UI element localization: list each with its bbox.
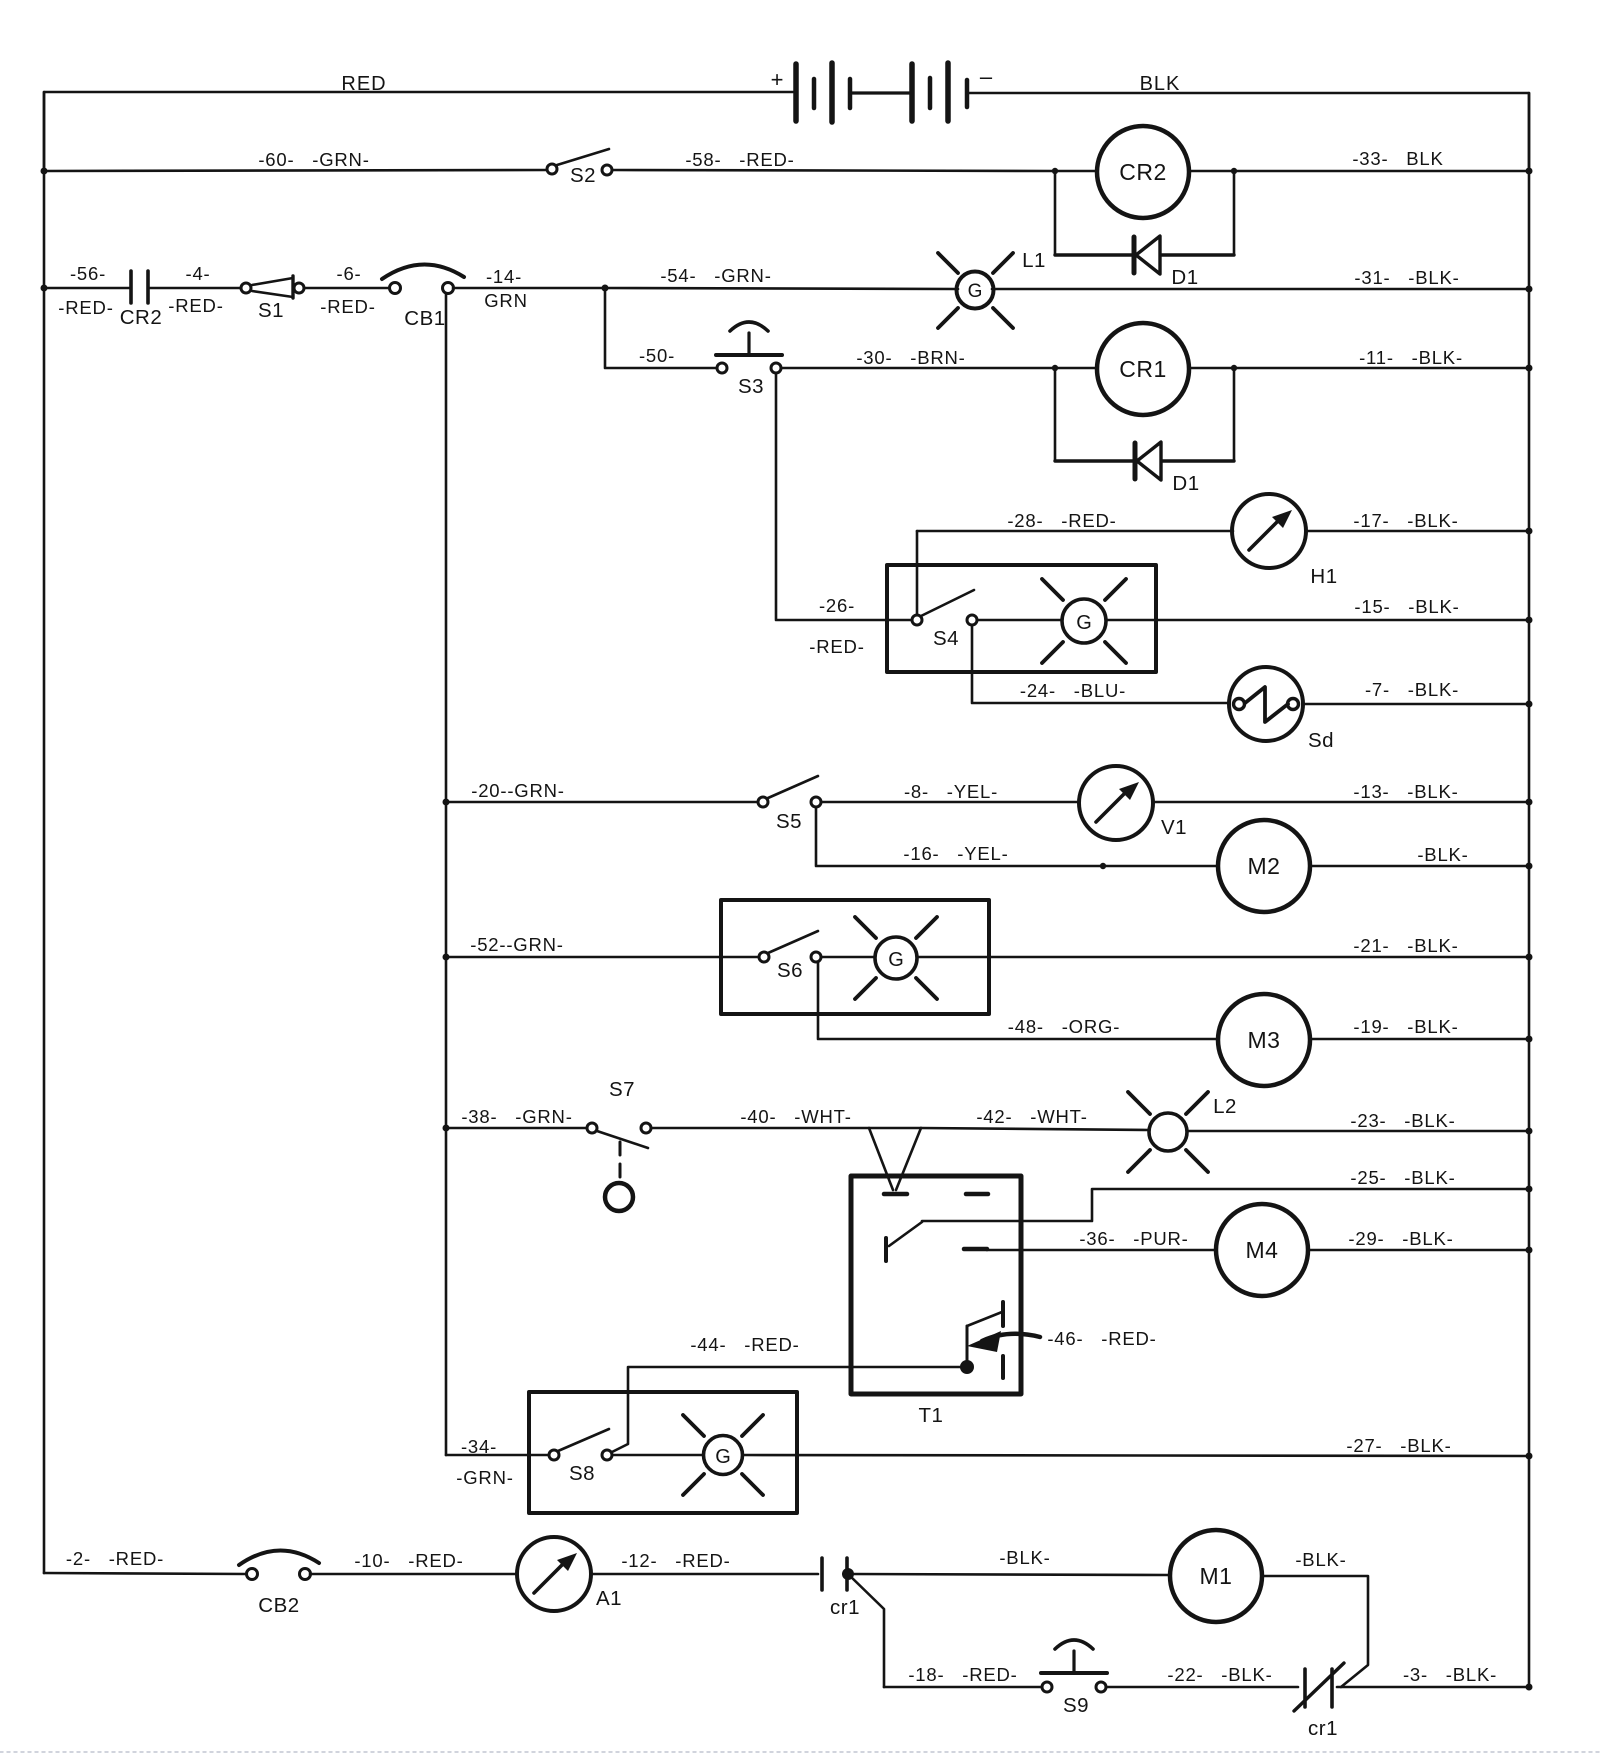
node junction CR1 right	[1231, 365, 1237, 371]
motor M2	[1218, 820, 1310, 912]
svg-text:-31- -BLK-: -31- -BLK-	[1354, 267, 1459, 288]
node junction right bus M4 rung	[1526, 1247, 1533, 1254]
switch S5	[758, 776, 821, 833]
svg-text:-BLK-: -BLK-	[999, 1547, 1050, 1568]
wire rung S5 -8- YEL segment	[821, 781, 1079, 802]
meter V1	[1079, 766, 1187, 840]
svg-text:-46- -RED-: -46- -RED-	[1047, 1328, 1156, 1349]
svg-text:RED: RED	[341, 73, 386, 95]
svg-text:-58- -RED-: -58- -RED-	[685, 149, 794, 170]
svg-text:cr1: cr1	[1308, 1717, 1338, 1740]
bottom scan edge line	[0, 1751, 1600, 1753]
svg-text:-10- -RED-: -10- -RED-	[354, 1550, 463, 1571]
wire -26- RED labels	[809, 595, 864, 657]
wire rung S8 -34- GRN segment	[446, 1436, 549, 1488]
svg-text:-30- -BRN-: -30- -BRN-	[856, 347, 965, 368]
motor M4	[1216, 1204, 1308, 1296]
svg-text:-22- -BLK-: -22- -BLK-	[1167, 1664, 1272, 1685]
wire cr1 drop to lower rung	[848, 1574, 884, 1687]
wire T1 drop leg right	[896, 1128, 921, 1190]
svg-text:-RED-: -RED-	[809, 636, 864, 657]
wire rung -36- PUR segment	[987, 1228, 1216, 1250]
svg-text:-29- -BLK-: -29- -BLK-	[1348, 1228, 1453, 1249]
node junction feeder S6 rung	[443, 954, 450, 961]
svg-text:L1: L1	[1022, 249, 1046, 272]
wire S6 branch down to M3	[818, 962, 1218, 1039]
wire bottom rung -10- RED segment	[310, 1550, 517, 1574]
wire S4 down to Sd rung	[972, 625, 1228, 703]
lamp G in S8 box	[683, 1415, 763, 1495]
svg-text:-16- -YEL-: -16- -YEL-	[903, 843, 1008, 864]
wire rung M2 BLK segment	[1310, 844, 1529, 866]
svg-text:Sd: Sd	[1308, 729, 1334, 752]
svg-text:S7: S7	[609, 1078, 635, 1101]
node junction right bus M2 rung	[1526, 863, 1533, 870]
wire rung1 -60- GRN segment	[44, 149, 547, 171]
motor M3	[1218, 994, 1310, 1086]
svg-text:S2: S2	[570, 164, 596, 187]
svg-text:-GRN-: -GRN-	[456, 1467, 513, 1488]
wire rung -23- BLK segment	[1187, 1110, 1529, 1131]
wire rung -42- WHT segment	[921, 1106, 1149, 1130]
node junction feeder S7 rung	[443, 1125, 450, 1132]
node junction right bus M3 rung	[1526, 1036, 1533, 1043]
svg-text:BLK: BLK	[1140, 73, 1181, 95]
svg-text:D1: D1	[1172, 472, 1199, 495]
node junction -16- wire	[1100, 863, 1106, 869]
wire S4 to lamp G	[977, 619, 1062, 622]
wire rung -7- BLK segment	[1303, 679, 1529, 704]
svg-text:T1: T1	[919, 1404, 944, 1427]
node junction left bus rung1	[41, 168, 48, 175]
svg-text:-27- -BLK-: -27- -BLK-	[1346, 1435, 1451, 1456]
svg-text:-13- -BLK-: -13- -BLK-	[1353, 781, 1458, 802]
svg-text:-11- -BLK-: -11- -BLK-	[1359, 347, 1463, 368]
svg-text:CB1: CB1	[404, 307, 445, 330]
node junction CR1 left	[1052, 365, 1058, 371]
diode D1 (lower)	[1135, 442, 1200, 495]
wire D1 lower loop left leg	[1054, 370, 1057, 461]
svg-text:-21- -BLK-: -21- -BLK-	[1353, 935, 1458, 956]
relay coil CR1	[1055, 323, 1234, 415]
wire branch S3 down to S4 box	[776, 373, 912, 620]
node junction right bus lower rung	[1526, 1684, 1533, 1691]
svg-text:cr1: cr1	[830, 1596, 860, 1619]
svg-text:-42- -WHT-: -42- -WHT-	[976, 1106, 1087, 1127]
meter A1	[517, 1537, 622, 1611]
heater contact inside T1	[967, 1302, 1003, 1378]
switch S6	[759, 931, 821, 982]
wire rung1 -33- BLK segment	[1234, 148, 1529, 171]
wire branch rung2 to S3	[605, 288, 717, 368]
svg-text:M4: M4	[1246, 1237, 1279, 1263]
switch S4	[912, 590, 977, 650]
svg-text:-6-: -6-	[336, 263, 361, 284]
node junction CR2 right	[1231, 168, 1237, 174]
wire S4 up to H1 rung	[916, 531, 919, 615]
svg-text:-3- -BLK-: -3- -BLK-	[1403, 1664, 1497, 1685]
svg-text:S3: S3	[738, 375, 764, 398]
node junction right bus S5 rung	[1526, 799, 1533, 806]
wire rung S8 -27- BLK segment	[743, 1435, 1529, 1456]
wire top bus left segment (RED)	[44, 73, 796, 172]
wire bottom rung -2- RED segment	[44, 1548, 247, 1574]
wire rung H1 -28- RED segment	[917, 510, 1233, 531]
wire rung S5 -20- GRN segment	[446, 780, 758, 802]
svg-text:-2- -RED-: -2- -RED-	[66, 1548, 164, 1569]
svg-text:-RED-: -RED-	[320, 296, 375, 317]
wire left bus vertical	[43, 92, 46, 1573]
svg-text:-28- -RED-: -28- -RED-	[1007, 510, 1116, 531]
lamp L1	[938, 249, 1046, 328]
svg-text:–: –	[980, 64, 993, 89]
lamp G in S6 box	[855, 917, 937, 999]
circuit breaker CB1	[382, 264, 464, 330]
wire rung M4 -29- BLK segment	[1308, 1228, 1529, 1250]
terminal T1 middle	[964, 1247, 987, 1252]
svg-text:G: G	[715, 1446, 731, 1468]
wire rung -15- BLK segment	[1106, 596, 1529, 620]
switch S2	[547, 149, 612, 187]
svg-text:S1: S1	[258, 299, 284, 322]
motor M1	[1170, 1530, 1262, 1622]
wire D1 lower loop bottom right	[1161, 459, 1234, 462]
terminal T1 top right	[966, 1192, 988, 1197]
wire rung M3 -19- BLK segment	[1310, 1016, 1529, 1039]
node junction left bus rung2	[41, 285, 48, 292]
svg-text:A1: A1	[596, 1587, 622, 1610]
wire T1 drop leg left	[869, 1128, 893, 1190]
wire rung2 -4- RED segment	[148, 263, 241, 316]
wire S5 branch down to M2	[816, 807, 1218, 866]
node junction right bus rung1	[1526, 168, 1533, 175]
enclosure box around S4	[887, 565, 1156, 672]
svg-text:-40- -WHT-: -40- -WHT-	[740, 1106, 851, 1127]
wire lower rung -3- BLK segment	[1337, 1664, 1529, 1687]
wire -44- RED from T1 to S8	[612, 1334, 967, 1452]
meter H1	[1232, 494, 1338, 588]
node junction right bus rung3	[1526, 365, 1533, 372]
wire D1 loop right leg	[1233, 173, 1236, 255]
svg-text:-19- -BLK-: -19- -BLK-	[1353, 1016, 1458, 1037]
svg-text:CR2: CR2	[1119, 159, 1167, 185]
node junction right bus H1 rung	[1526, 528, 1533, 535]
svg-text:-60- -GRN-: -60- -GRN-	[258, 149, 369, 170]
wire rung3 -30- BRN segment	[781, 347, 1055, 368]
diode D1 (upper)	[1134, 236, 1199, 289]
svg-text:-BLK-: -BLK-	[1295, 1549, 1346, 1570]
svg-text:-23- -BLK-: -23- -BLK-	[1350, 1110, 1455, 1131]
wire S8 to lamp G	[612, 1454, 703, 1457]
wire lower rung -22- BLK segment	[1106, 1664, 1298, 1687]
svg-text:L2: L2	[1213, 1095, 1237, 1118]
wire M1 right BLK segment	[1262, 1549, 1368, 1687]
svg-text:M1: M1	[1200, 1563, 1233, 1589]
circuit breaker CB2	[239, 1550, 319, 1617]
svg-text:CB2: CB2	[258, 1594, 299, 1617]
svg-text:-18- -RED-: -18- -RED-	[908, 1664, 1017, 1685]
wire rung2 -6- RED segment	[304, 263, 389, 317]
wire rung S7 -40- WHT segment	[651, 1106, 921, 1128]
svg-text:-17- -BLK-: -17- -BLK-	[1353, 510, 1458, 531]
svg-text:-52--GRN-: -52--GRN-	[470, 934, 564, 955]
wire rung2 -56- RED segment	[44, 263, 131, 318]
wire D1 lower loop right leg	[1233, 370, 1236, 461]
wire rung S5 -13- BLK segment	[1153, 781, 1529, 802]
switch S1	[241, 276, 304, 322]
svg-text:-RED-: -RED-	[168, 295, 223, 316]
svg-text:-36- -PUR-: -36- -PUR-	[1079, 1228, 1188, 1249]
wire -46- RED pointer arrow	[967, 1328, 1157, 1352]
contact CR2 (normally open)	[120, 271, 163, 329]
contact cr1 (normally open)	[822, 1558, 860, 1619]
svg-text:-7- -BLK-: -7- -BLK-	[1365, 679, 1459, 700]
svg-text:V1: V1	[1161, 816, 1187, 839]
wire rung S7 -38- GRN segment	[446, 1106, 587, 1128]
svg-text:H1: H1	[1310, 565, 1337, 588]
node junction right bus S8 rung	[1526, 1453, 1533, 1460]
wire rung2 -54- GRN segment	[605, 265, 958, 289]
wire T1 switch to -25- rung	[922, 1189, 1529, 1221]
svg-text:G: G	[888, 949, 904, 971]
svg-text:S8: S8	[569, 1462, 595, 1485]
svg-text:S9: S9	[1063, 1694, 1089, 1717]
svg-text:S4: S4	[933, 627, 959, 650]
node junction right bus Sd rung	[1526, 701, 1533, 708]
wire bottom rung BLK segment to M1	[850, 1547, 1170, 1575]
switch S8	[549, 1429, 612, 1485]
node junction rung2 branch	[602, 285, 609, 292]
battery B1	[771, 63, 993, 122]
svg-text:-54- -GRN-: -54- -GRN-	[660, 265, 771, 286]
pushbutton S9	[1041, 1640, 1107, 1717]
svg-text:-38- -GRN-: -38- -GRN-	[461, 1106, 572, 1127]
switch inside T1	[886, 1222, 922, 1261]
svg-text:CR2: CR2	[120, 306, 163, 329]
svg-text:M2: M2	[1248, 853, 1281, 879]
node junction right bus L2 rung	[1526, 1128, 1533, 1135]
wire lower rung -18- RED segment	[884, 1664, 1042, 1687]
wire right bus vertical	[1528, 93, 1531, 1687]
svg-text:GRN: GRN	[484, 290, 528, 311]
svg-text:-33- BLK: -33- BLK	[1352, 148, 1443, 169]
node junction right bus S6 rung	[1526, 954, 1533, 961]
wire bottom rung -12- RED segment	[591, 1550, 818, 1574]
svg-text:-20--GRN-: -20--GRN-	[471, 780, 565, 801]
wire top bus right segment (BLK)	[967, 73, 1529, 171]
svg-text:-44- -RED-: -44- -RED-	[690, 1334, 799, 1355]
svg-text:-4-: -4-	[185, 263, 210, 284]
svg-text:-26-: -26-	[819, 595, 855, 616]
svg-text:-48- -ORG-: -48- -ORG-	[1008, 1016, 1120, 1037]
svg-text:-25- -BLK-: -25- -BLK-	[1350, 1167, 1455, 1188]
pushbutton S3	[716, 322, 782, 398]
svg-text:-12- -RED-: -12- -RED-	[621, 1550, 730, 1571]
svg-text:+: +	[771, 67, 784, 92]
wire rung2 -14- GRN segment	[453, 266, 605, 311]
svg-text:G: G	[968, 281, 983, 302]
enclosure box around S6	[721, 900, 989, 1014]
node junction T1 bottom terminal	[960, 1360, 974, 1374]
wire rung3 -11- BLK segment	[1234, 347, 1529, 368]
svg-text:-50-: -50-	[639, 345, 675, 366]
wire D1 loop left leg	[1054, 173, 1057, 255]
wire D1 lower loop bottom left	[1055, 459, 1134, 462]
node junction right bus rung2	[1526, 286, 1533, 293]
enclosure box around S8	[529, 1392, 797, 1513]
lamp L2	[1128, 1092, 1237, 1172]
svg-text:-24- -BLU-: -24- -BLU-	[1020, 680, 1126, 701]
svg-text:G: G	[1076, 612, 1092, 634]
terminal T1 top left	[884, 1192, 907, 1197]
wire CB1 feeder vertical	[445, 293, 448, 1455]
svg-text:-8- -YEL-: -8- -YEL-	[904, 781, 998, 802]
wire rung S6 -52- GRN segment	[446, 934, 759, 957]
svg-text:S5: S5	[776, 810, 802, 833]
switch S7 (pull type)	[587, 1078, 651, 1211]
svg-text:-RED-: -RED-	[58, 297, 113, 318]
timer box T1	[851, 1176, 1021, 1427]
wire D1 loop bottom left	[1055, 253, 1133, 256]
wire rung1 -58- RED segment	[612, 149, 1055, 171]
wire rung2 -31- BLK segment	[992, 267, 1529, 289]
svg-text:-56-: -56-	[70, 263, 106, 284]
node junction CR2 left	[1052, 168, 1058, 174]
svg-text:-14-: -14-	[486, 266, 522, 287]
wire S6 to lamp G	[821, 956, 875, 959]
svg-text:M3: M3	[1248, 1027, 1281, 1053]
wire D1 loop bottom right	[1160, 253, 1234, 256]
node junction feeder S5 rung	[443, 799, 450, 806]
wire rung S6 -21- BLK segment	[917, 935, 1529, 957]
svg-text:-15- -BLK-: -15- -BLK-	[1354, 596, 1459, 617]
wire rung H1 -17- BLK segment	[1306, 510, 1529, 531]
node junction right bus -15- rung	[1526, 617, 1533, 624]
svg-text:-34-: -34-	[461, 1436, 497, 1457]
svg-text:D1: D1	[1171, 266, 1198, 289]
node junction right bus -25- rung	[1526, 1186, 1533, 1193]
svg-text:-BLK-: -BLK-	[1417, 844, 1468, 865]
lamp G in S4 box	[1042, 579, 1126, 663]
svg-text:CR1: CR1	[1119, 356, 1167, 382]
flasher Sd	[1229, 667, 1334, 752]
svg-text:S6: S6	[777, 959, 803, 982]
node junction cr1 right	[842, 1568, 854, 1580]
relay coil CR2	[1055, 126, 1234, 218]
contact cr1 (normally closed)	[1294, 1663, 1344, 1740]
